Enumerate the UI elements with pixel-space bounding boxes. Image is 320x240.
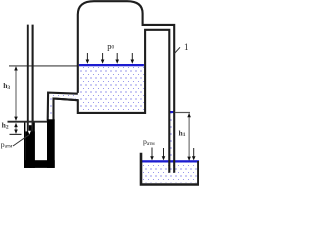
reference level line (9, 65, 77, 67)
tank dome + left wall + outlet top + right tube outer wall (78, 1, 174, 173)
tank water surface (blue) (79, 64, 144, 66)
pipe bottom wall tank-side segment (54, 99, 78, 101)
right tube liquid (170, 113, 173, 159)
svg-text:h3: h3 (3, 81, 10, 91)
h3 dimension (15, 67, 17, 121)
bottom tank water surface (blue) (142, 160, 199, 162)
right tube level mark (blue) (170, 111, 174, 113)
svg-text:pатм: pатм (143, 137, 155, 147)
bottom tank liquid (142, 162, 197, 182)
tank liquid (dotted fill) (79, 66, 144, 112)
right tube inner wall + outlet bottom + tank right wall + tank bottom + pipe bottom wall + channel right wall (54, 30, 170, 173)
svg-text:p0: p0 (107, 41, 114, 51)
svg-text:pатм: pатм (1, 140, 13, 150)
pipe top wall + channel left wall (48, 93, 78, 121)
p0 arrows (87, 53, 132, 61)
thin piezometer tube (27, 25, 29, 132)
label 1 with leader (174, 47, 180, 53)
white notch (leader arrowhead) in mercury (28, 131, 31, 135)
U-tube manometer mercury (black) (24, 119, 55, 168)
svg-text:1: 1 (184, 42, 189, 52)
h2 dimension (15, 123, 17, 133)
h1 dimension (175, 112, 190, 114)
bottom tank walls (141, 153, 199, 185)
pipe stub liquid (49, 94, 76, 120)
mercury level tick (left of channel, crossing arms) (8, 121, 48, 123)
bottom tank arrows (152, 148, 194, 158)
svg-text:h1: h1 (179, 128, 186, 138)
